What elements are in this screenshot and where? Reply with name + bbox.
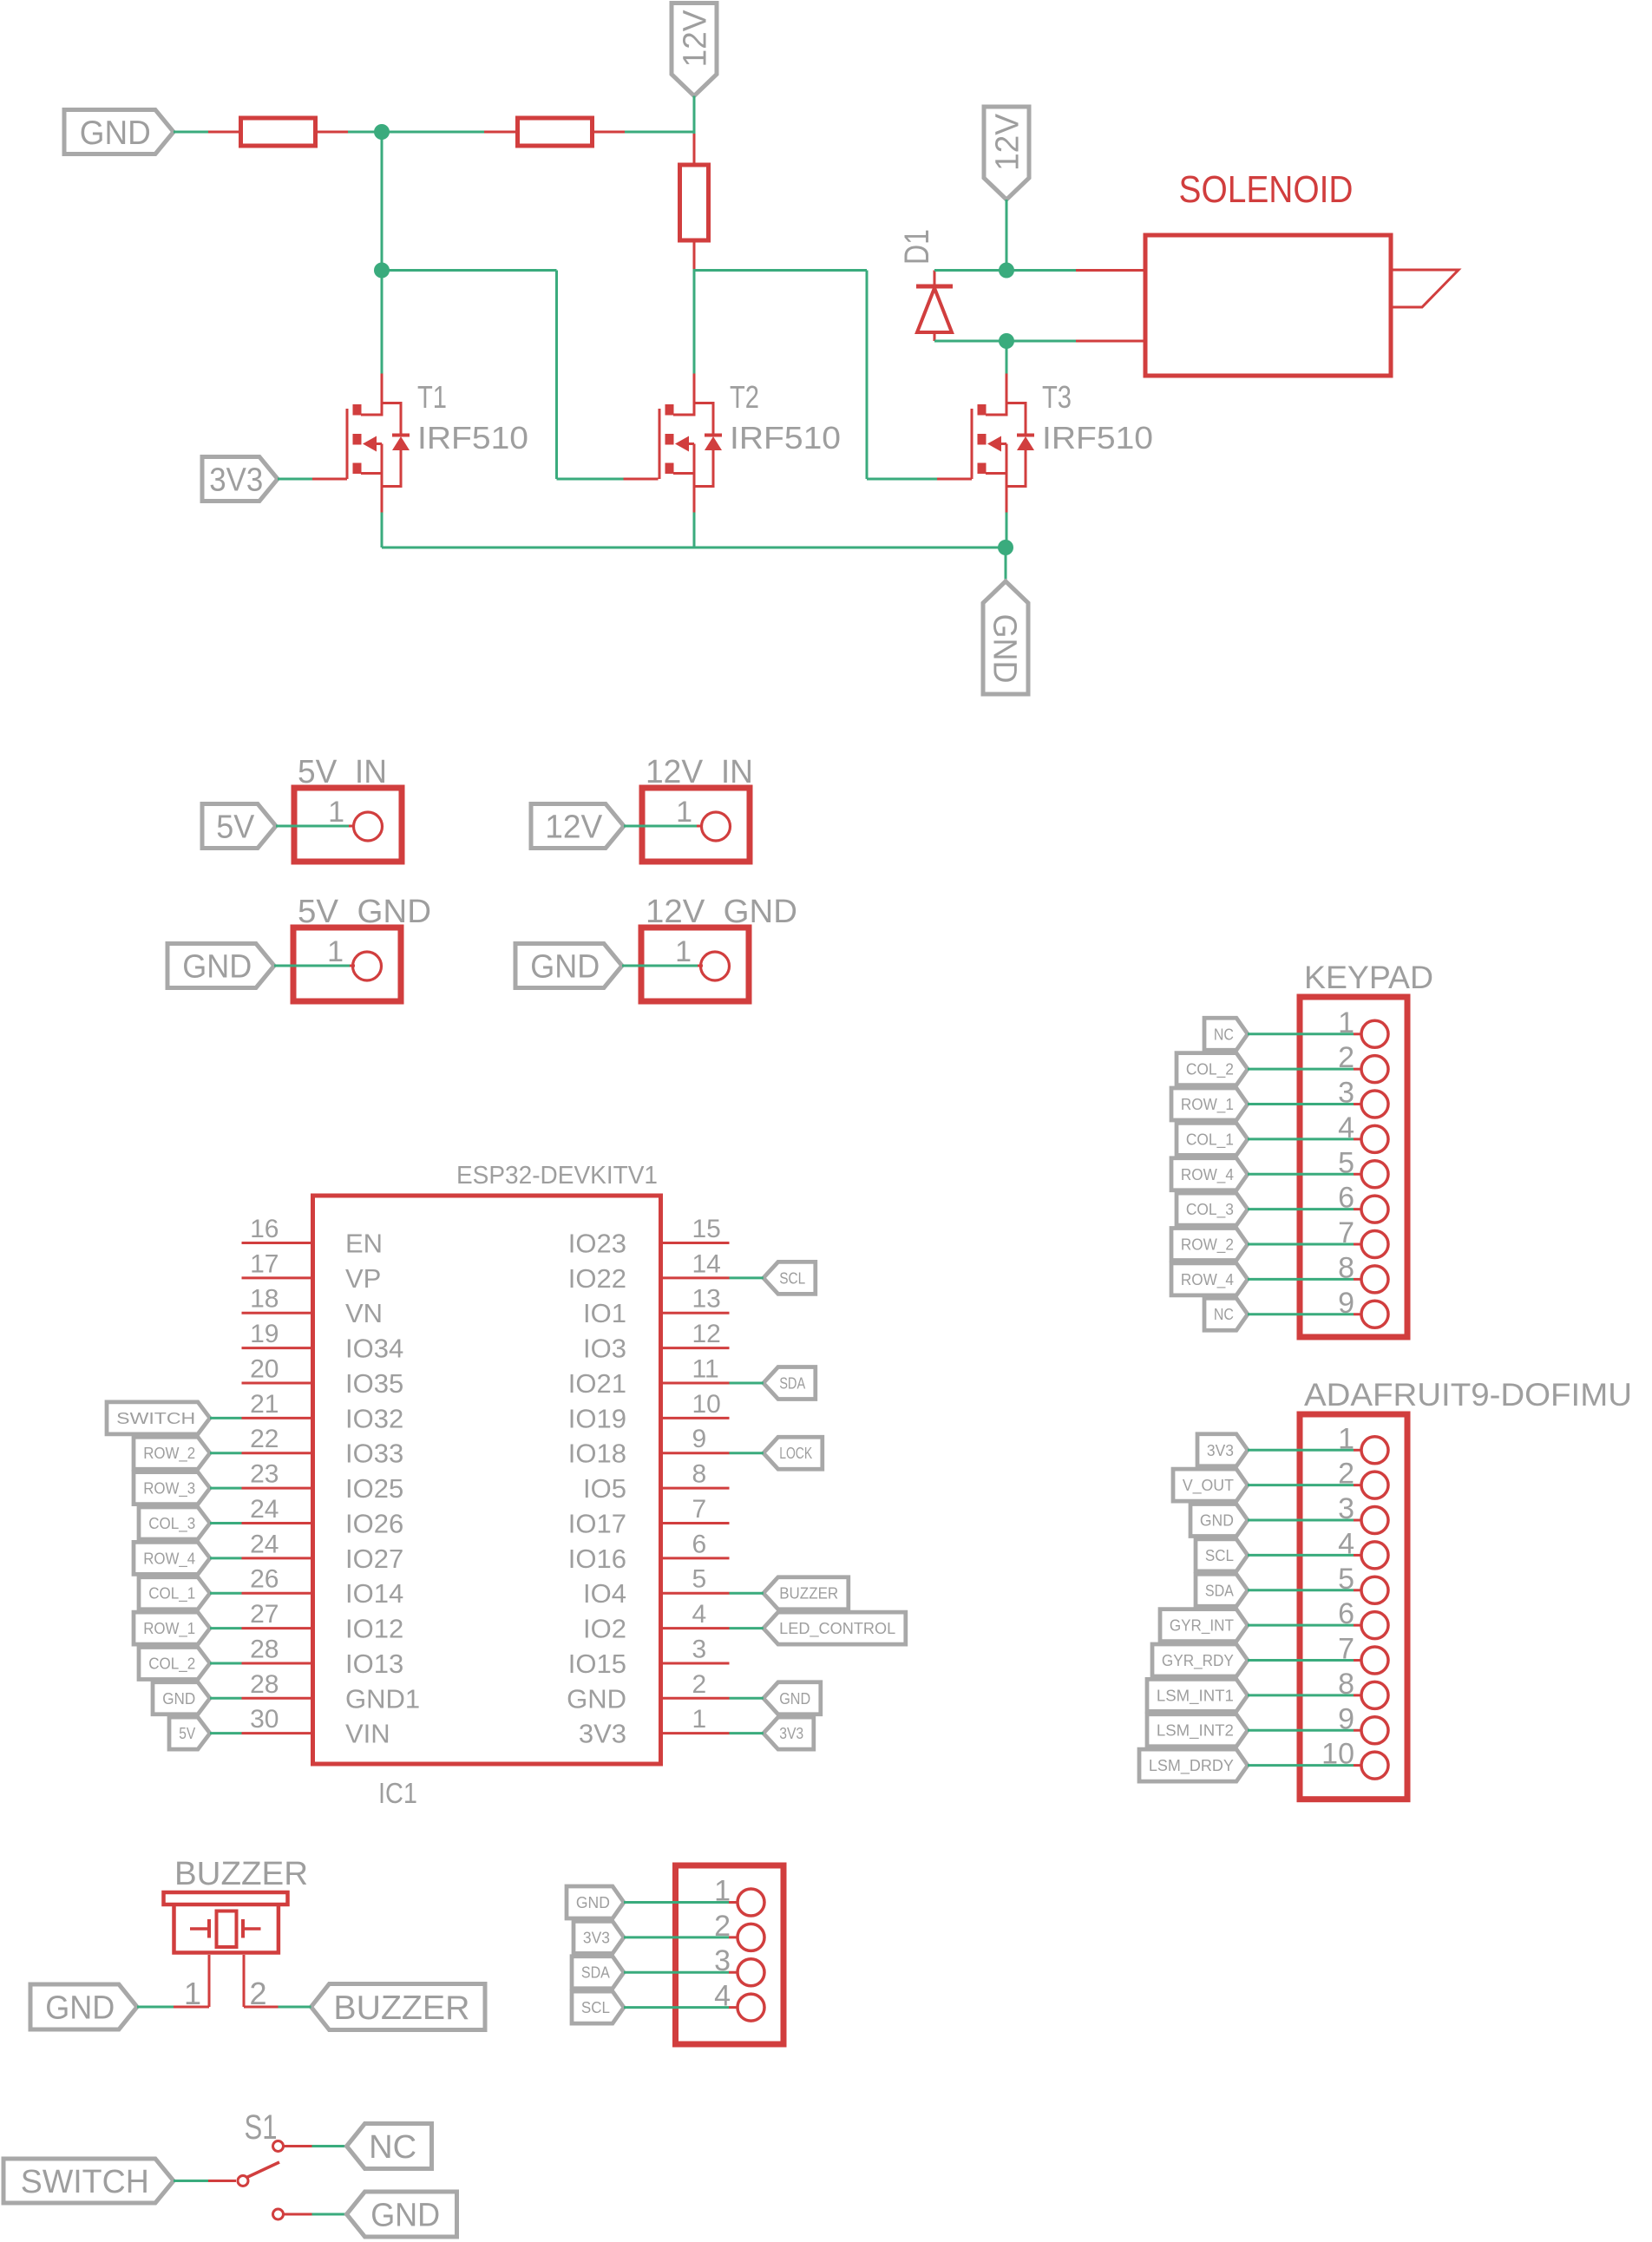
svg-text:12: 12 (692, 1320, 721, 1348)
svg-text:28: 28 (250, 1635, 279, 1663)
IC1 right pin 1 3V3 (579, 1705, 730, 1749)
wire ROW_3 to IC1 IO25 (210, 1487, 242, 1490)
svg-text:ROW_2: ROW_2 (1181, 1236, 1234, 1255)
svg-text:6: 6 (692, 1530, 707, 1558)
svg-text:D1: D1 (898, 229, 936, 265)
resistor R2 right pin (591, 131, 625, 134)
connector KEYPAD pin 7 (1338, 1216, 1388, 1258)
IC1 left pin 23 IO25 (242, 1460, 404, 1504)
IC1 right pin 2 GND (567, 1670, 729, 1714)
net flag SCL at JP1 pin 4 (572, 1991, 624, 2023)
IC1 right pin 6 IO16 (568, 1530, 730, 1574)
svg-text:5V: 5V (216, 810, 255, 846)
svg-text:IO27: IO27 (345, 1544, 403, 1574)
power flag 5V at 5V_IN (202, 804, 276, 849)
wire IC1 IO18 to LOCK (730, 1452, 764, 1454)
net flag LSM_DRDY at ADAFRUIT9-DOFIMU pin 10 (1139, 1749, 1248, 1781)
connector ADAFRUIT9-DOFIMU pin 4 (1338, 1527, 1388, 1569)
IC1 left pin 22 IO33 (242, 1425, 404, 1469)
wire COL_2 to KEYPAD pin 2 (1248, 1068, 1354, 1071)
connector KEYPAD pin 5 (1338, 1146, 1388, 1188)
net flag COL_2 at KEYPAD pin 2 (1177, 1053, 1248, 1085)
T3 drain pin (1006, 374, 1008, 405)
svg-text:ESP32-DEVKITV1: ESP32-DEVKITV1 (456, 1162, 658, 1190)
power flag 12V at 12V_IN (531, 804, 624, 849)
wire 12V flag down to R3 (693, 96, 696, 134)
net flag LED_CONTROL at IC1 pin 4 (764, 1612, 906, 1644)
svg-text:IO5: IO5 (583, 1473, 626, 1504)
svg-text:2: 2 (692, 1670, 707, 1699)
resistor R1 (241, 118, 316, 146)
svg-text:1: 1 (327, 935, 344, 968)
power flag GND at 12V_GND (515, 944, 622, 988)
net flag BUZZER at buzzer pin2 (311, 1984, 486, 2030)
connector KEYPAD pin 1 (1338, 1006, 1388, 1048)
buzzer pin 1 (174, 1955, 209, 2011)
wire S1 to GND flag (312, 2213, 347, 2216)
switch S1 GND pin wire (285, 2213, 312, 2216)
connector 12V_IN (642, 788, 750, 862)
svg-text:IO4: IO4 (583, 1578, 626, 1609)
svg-text:GND: GND (182, 949, 252, 986)
net flag ROW_4 at IC1 pin 24 (134, 1542, 210, 1574)
connector 5V_IN (294, 788, 402, 862)
svg-text:NC: NC (1214, 1306, 1234, 1323)
net flag COL_3 at IC1 pin 24 (139, 1507, 210, 1539)
IC1 right pin 5 IO4 (583, 1565, 729, 1609)
net flag NC (347, 2124, 432, 2169)
buzzer pin 2 (244, 1955, 279, 2011)
svg-text:GND: GND (779, 1690, 810, 1708)
connector JP1 pin 4 (714, 1980, 764, 2022)
power flag 12V above solenoid (984, 107, 1029, 200)
net flag COL_3 at KEYPAD pin 6 (1177, 1193, 1248, 1225)
svg-text:IC1: IC1 (378, 1777, 417, 1809)
wire GYR_RDY to ADAFRUIT9-DOFIMU pin 7 (1248, 1659, 1354, 1662)
svg-text:BUZZER: BUZZER (333, 1990, 469, 2027)
svg-text:13: 13 (692, 1285, 721, 1314)
IC1 left pin 18 VN (242, 1285, 383, 1329)
net flag V_OUT at ADAFRUIT9-DOFIMU pin 2 (1173, 1469, 1248, 1501)
solenoid pin2 (1076, 340, 1145, 343)
wire to T2 gate (557, 478, 624, 481)
resistor R1 left pin (208, 131, 241, 134)
svg-text:5: 5 (692, 1565, 707, 1594)
IC1 left pin 17 VP (242, 1249, 382, 1294)
svg-text:GND: GND (576, 1894, 610, 1911)
resistor R3 (680, 165, 709, 240)
svg-text:COL_2: COL_2 (1186, 1061, 1234, 1079)
svg-text:ROW_1: ROW_1 (1181, 1096, 1234, 1114)
svg-text:12V: 12V (545, 810, 603, 846)
net flag SWITCH at IC1 pin 21 (107, 1402, 210, 1434)
net flag COL_1 at KEYPAD pin 4 (1177, 1123, 1248, 1155)
IC1 right pin 14 IO22 (568, 1249, 730, 1294)
net flag NC at KEYPAD pin 9 (1204, 1298, 1248, 1330)
connector 12V_GND (641, 928, 749, 1001)
resistor R2 (518, 118, 593, 146)
svg-text:COL_2: COL_2 (148, 1655, 195, 1673)
wire IC1 IO4 to BUZZER (730, 1592, 764, 1595)
svg-text:COL_1: COL_1 (1186, 1131, 1234, 1149)
svg-text:23: 23 (250, 1460, 279, 1489)
net flag 3V3 at ADAFRUIT9-DOFIMU pin 1 (1197, 1434, 1248, 1466)
IC1 right pin 7 IO17 (568, 1495, 730, 1539)
svg-text:IO12: IO12 (345, 1614, 403, 1644)
IC1 right pin 8 IO5 (583, 1460, 729, 1504)
net flag SWITCH (3, 2159, 174, 2203)
svg-text:IO15: IO15 (568, 1649, 626, 1679)
connector ADAFRUIT9-DOFIMU pin 3 (1338, 1492, 1388, 1534)
T2 drain pin (693, 374, 696, 405)
net flag ROW_3 at IC1 pin 23 (134, 1472, 210, 1504)
svg-text:SCL: SCL (779, 1269, 805, 1287)
svg-text:1: 1 (692, 1705, 707, 1734)
connector KEYPAD pin 8 (1338, 1251, 1388, 1293)
connector ADAFRUIT9-DOFIMU pin 6 (1338, 1597, 1388, 1639)
wire ROW_1 to KEYPAD pin 3 (1248, 1103, 1354, 1105)
wire COL_3 to IC1 IO26 (210, 1522, 242, 1524)
wire LSM_DRDY to ADAFRUIT9-DOFIMU pin 10 (1248, 1764, 1354, 1767)
IC1 left pin 20 IO35 (242, 1354, 404, 1399)
wire COL_1 to KEYPAD pin 4 (1248, 1137, 1354, 1140)
wire GND to JP1 pin 1 (624, 1901, 729, 1904)
wire IC1 IO21 to SDA (730, 1381, 764, 1384)
svg-text:3V3: 3V3 (579, 1719, 626, 1749)
svg-text:11: 11 (692, 1354, 719, 1383)
connector JP1 body (676, 1865, 784, 2044)
net flag 5V at IC1 pin 30 (169, 1717, 210, 1749)
svg-text:12V: 12V (990, 113, 1026, 171)
svg-text:T3: T3 (1042, 379, 1072, 415)
svg-text:ADAFRUIT9-DOFIMU: ADAFRUIT9-DOFIMU (1304, 1377, 1632, 1413)
svg-text:3V3: 3V3 (209, 462, 263, 499)
svg-text:14: 14 (692, 1249, 721, 1278)
wire IC1 GND to GND (730, 1697, 764, 1700)
wire GND to ADAFRUIT9-DOFIMU pin 3 (1248, 1519, 1354, 1522)
svg-text:GND: GND (530, 949, 600, 986)
svg-text:1: 1 (676, 796, 692, 829)
IC1 right pin 4 IO2 (583, 1600, 729, 1644)
connector KEYPAD body (1300, 997, 1407, 1337)
svg-text:VIN: VIN (345, 1719, 390, 1749)
svg-text:SDA: SDA (581, 1964, 610, 1982)
svg-text:GYR_RDY: GYR_RDY (1162, 1652, 1234, 1670)
connector ADAFRUIT9-DOFIMU pin 1 (1338, 1422, 1388, 1464)
IC1 left pin 21 IO32 (242, 1390, 404, 1434)
wire GND to 12V_GND pin (622, 965, 698, 967)
wire GYR_INT to ADAFRUIT9-DOFIMU pin 6 (1248, 1624, 1354, 1627)
switch S1 (208, 2141, 284, 2220)
svg-text:IO17: IO17 (568, 1508, 626, 1538)
svg-text:19: 19 (250, 1320, 279, 1348)
wire V_OUT to ADAFRUIT9-DOFIMU pin 2 (1248, 1484, 1354, 1486)
svg-text:IRF510: IRF510 (730, 420, 841, 456)
T1 drain pin (381, 374, 383, 405)
svg-text:GND: GND (567, 1683, 626, 1714)
svg-text:LSM_INT2: LSM_INT2 (1157, 1722, 1234, 1740)
wire SCL to JP1 pin 4 (624, 2006, 729, 2009)
connector ADAFRUIT9-DOFIMU pin 5 (1338, 1563, 1388, 1604)
connector KEYPAD pin 6 (1338, 1182, 1388, 1223)
svg-text:IO16: IO16 (568, 1544, 626, 1574)
junction B (374, 263, 390, 279)
svg-text:20: 20 (250, 1354, 279, 1383)
net flag SDA at JP1 pin 3 (572, 1957, 624, 1989)
svg-text:IO21: IO21 (568, 1368, 626, 1399)
IC1 right pin 10 IO19 (568, 1390, 730, 1434)
solenoid plunger (1391, 270, 1459, 307)
svg-text:IO25: IO25 (345, 1473, 403, 1504)
switch S1 NC pin wire (285, 2145, 312, 2147)
svg-text:10: 10 (692, 1390, 721, 1419)
svg-text:3: 3 (692, 1635, 707, 1663)
solenoid body (1145, 235, 1391, 376)
svg-text:VN: VN (345, 1298, 383, 1328)
svg-text:T1: T1 (417, 379, 447, 415)
net flag BUZZER at IC1 pin 5 (764, 1577, 849, 1609)
wire R1 to junction A (348, 131, 484, 134)
wire junction B to T1 drain (381, 271, 383, 374)
svg-text:SCL: SCL (581, 1999, 610, 2016)
power flag GND top-left (64, 110, 174, 154)
svg-text:IO23: IO23 (568, 1229, 626, 1259)
svg-text:GND: GND (45, 1990, 115, 2027)
net flag SCL at IC1 pin 14 (764, 1262, 816, 1294)
wire ROW_4 to IC1 IO27 (210, 1557, 242, 1559)
svg-text:1: 1 (328, 796, 344, 829)
svg-text:SDA: SDA (1205, 1582, 1234, 1599)
svg-text:SWITCH: SWITCH (21, 2164, 149, 2200)
transistor T2 (659, 374, 722, 513)
wire node to solenoid pin1 (1006, 269, 1076, 272)
svg-text:NC: NC (369, 2129, 416, 2166)
svg-text:18: 18 (250, 1285, 279, 1314)
IC1 left pin 16 EN (242, 1215, 383, 1259)
connector ADAFRUIT9-DOFIMU body (1300, 1414, 1407, 1799)
net flag COL_1 at IC1 pin 26 (139, 1577, 210, 1609)
net flag ROW_1 at IC1 pin 27 (134, 1612, 210, 1644)
IC1 left pin 19 IO34 (242, 1320, 404, 1364)
wire SDA to ADAFRUIT9-DOFIMU pin 5 (1248, 1589, 1354, 1591)
svg-text:7: 7 (692, 1495, 707, 1524)
net flag ROW_4 at KEYPAD pin 5 (1171, 1158, 1248, 1190)
svg-text:IO1: IO1 (583, 1298, 626, 1328)
connector ADAFRUIT9-DOFIMU pin 8 (1338, 1668, 1388, 1709)
svg-text:5V: 5V (179, 1725, 195, 1742)
connector ADAFRUIT9-DOFIMU pin 10 (1321, 1738, 1388, 1779)
svg-text:LSM_DRDY: LSM_DRDY (1149, 1757, 1234, 1775)
power flag 12V top (672, 3, 717, 96)
svg-text:NC: NC (1214, 1026, 1234, 1043)
IC1 right pin 12 IO3 (583, 1320, 729, 1364)
connector ADAFRUIT9-DOFIMU pin 7 (1338, 1633, 1388, 1675)
net flag SCL at ADAFRUIT9-DOFIMU pin 4 (1196, 1539, 1248, 1571)
net flag 3V3 at JP1 pin 2 (574, 1921, 624, 1953)
svg-text:COL_3: COL_3 (1186, 1201, 1234, 1219)
net flag GYR_INT at ADAFRUIT9-DOFIMU pin 6 (1160, 1609, 1248, 1642)
svg-text:24: 24 (250, 1530, 279, 1558)
svg-text:ROW_4: ROW_4 (143, 1550, 195, 1568)
svg-text:24: 24 (250, 1495, 279, 1524)
power flag 3V3 (202, 457, 278, 501)
wire T2 drain to T3 gate horizontal (694, 269, 867, 272)
svg-text:15: 15 (692, 1215, 721, 1243)
svg-text:30: 30 (250, 1705, 279, 1734)
power flag GND below T3 (983, 581, 1028, 694)
IC1 left pin 28 IO13 (242, 1635, 404, 1679)
wire 5V to IC1 VIN (210, 1732, 242, 1734)
IC1 left pin 27 IO12 (242, 1600, 404, 1644)
wire ROW_4 to KEYPAD pin 8 (1248, 1278, 1354, 1281)
svg-text:V_OUT: V_OUT (1183, 1477, 1234, 1495)
svg-text:8: 8 (692, 1460, 707, 1489)
svg-text:GND: GND (162, 1690, 195, 1708)
wire ROW_4 to KEYPAD pin 5 (1248, 1173, 1354, 1176)
net flag SDA at ADAFRUIT9-DOFIMU pin 5 (1196, 1574, 1248, 1606)
IC1 right pin 9 IO18 (568, 1425, 730, 1469)
svg-text:GYR_INT: GYR_INT (1170, 1617, 1234, 1636)
wire SWITCH to IC1 IO32 (210, 1417, 242, 1419)
svg-text:28: 28 (250, 1670, 279, 1699)
wire LSM_INT1 to ADAFRUIT9-DOFIMU pin 8 (1248, 1694, 1354, 1696)
wire SCL to ADAFRUIT9-DOFIMU pin 4 (1248, 1554, 1354, 1557)
wire buzzer pin2 to BUZZER flag (279, 2006, 311, 2009)
net flag GYR_RDY at ADAFRUIT9-DOFIMU pin 7 (1152, 1644, 1248, 1676)
source rail wire (382, 547, 1006, 549)
resistor R3 top pin (693, 134, 696, 165)
wire 5V to 5V_IN pin (276, 825, 349, 828)
svg-text:17: 17 (250, 1249, 279, 1278)
svg-text:BUZZER: BUZZER (779, 1585, 838, 1603)
svg-text:VP: VP (345, 1263, 381, 1294)
svg-text:EN: EN (345, 1229, 383, 1259)
IC1 left pin 26 IO14 (242, 1565, 404, 1609)
svg-text:IO2: IO2 (583, 1614, 626, 1644)
connector 5V_GND (293, 928, 401, 1001)
wire ROW_2 to IC1 IO33 (210, 1452, 242, 1454)
wire IC1 3V3 to 3V3 (730, 1732, 764, 1734)
svg-text:S1: S1 (245, 2108, 278, 2147)
IC1 left pin 28 GND1 (242, 1670, 421, 1714)
IC1 right pin 13 IO1 (583, 1285, 729, 1329)
transistor T3 (972, 374, 1034, 513)
svg-text:4: 4 (692, 1600, 707, 1629)
transistor T1 (347, 374, 410, 513)
T1 gate pin (312, 478, 347, 481)
buzzer symbol (164, 1892, 288, 1953)
IC1 ESP32 body (313, 1196, 661, 1764)
svg-text:LSM_INT1: LSM_INT1 (1157, 1687, 1234, 1705)
svg-text:26: 26 (250, 1565, 279, 1594)
svg-text:12V: 12V (678, 10, 714, 68)
wire SWITCH to S1 common (174, 2180, 208, 2182)
wire COL_3 to KEYPAD pin 6 (1248, 1208, 1354, 1210)
svg-text:3V3: 3V3 (779, 1725, 803, 1742)
connector ADAFRUIT9-DOFIMU pin 9 (1338, 1702, 1388, 1744)
net flag ROW_1 at KEYPAD pin 3 (1171, 1088, 1248, 1120)
connector JP1 pin 3 (714, 1944, 764, 1986)
wire junction A down to junction B (381, 132, 383, 271)
wire GND to buzzer pin1 (137, 2006, 174, 2009)
net flag LSM_INT1 at ADAFRUIT9-DOFIMU pin 8 (1147, 1679, 1248, 1711)
wire T2 gate feed vertical (555, 271, 558, 480)
svg-text:IO13: IO13 (345, 1649, 403, 1679)
wire GND to IC1 GND1 (210, 1697, 242, 1700)
connector KEYPAD pin 3 (1338, 1077, 1388, 1118)
svg-text:IRF510: IRF510 (417, 420, 528, 456)
svg-text:IO3: IO3 (583, 1334, 626, 1364)
connector KEYPAD pin 9 (1338, 1287, 1388, 1328)
net flag COL_2 at IC1 pin 28 (139, 1647, 210, 1679)
wire 3V3 to T1 gate (278, 478, 312, 481)
wire COL_2 to IC1 IO13 (210, 1662, 242, 1664)
svg-text:IO14: IO14 (345, 1578, 403, 1609)
wire T3 source to rail (1006, 513, 1008, 548)
wire rail to GND flag (1005, 547, 1007, 581)
svg-text:LED_CONTROL: LED_CONTROL (779, 1620, 895, 1638)
net flag ROW_4 at KEYPAD pin 8 (1171, 1263, 1248, 1295)
net flag ROW_2 at KEYPAD pin 7 (1171, 1229, 1248, 1261)
wire 3V3 to JP1 pin 2 (624, 1936, 729, 1938)
wire 12V to 12V_IN pin (624, 825, 697, 828)
diode D1 (916, 286, 953, 341)
svg-text:IO19: IO19 (568, 1403, 626, 1433)
wire junction B to T2 gate horizontal (382, 269, 557, 272)
svg-text:SOLENOID: SOLENOID (1179, 168, 1354, 211)
wire T1 source to rail (381, 513, 383, 548)
wire NC to KEYPAD pin 1 (1248, 1032, 1354, 1035)
IC1 left pin 30 VIN (242, 1705, 390, 1749)
resistor R1 right pin (315, 131, 348, 134)
svg-text:21: 21 (250, 1390, 279, 1419)
wire LSM_INT2 to ADAFRUIT9-DOFIMU pin 9 (1248, 1729, 1354, 1732)
IC1 left pin 24 IO26 (242, 1495, 404, 1539)
net flag GND at ADAFRUIT9-DOFIMU pin 3 (1190, 1504, 1248, 1537)
svg-text:COL_3: COL_3 (148, 1515, 195, 1533)
wire COL_1 to IC1 IO14 (210, 1592, 242, 1595)
wire ROW_2 to KEYPAD pin 7 (1248, 1243, 1354, 1246)
net flag SDA at IC1 pin 11 (764, 1367, 816, 1399)
svg-text:KEYPAD: KEYPAD (1304, 960, 1433, 995)
svg-text:IRF510: IRF510 (1042, 420, 1153, 456)
svg-text:IO22: IO22 (568, 1263, 626, 1294)
net flag LSM_INT2 at ADAFRUIT9-DOFIMU pin 9 (1147, 1714, 1248, 1747)
net flag NC at KEYPAD pin 1 (1204, 1018, 1248, 1050)
wire node to solenoid pin2 (1006, 340, 1076, 343)
svg-text:GND: GND (370, 2198, 440, 2234)
wire T3 gate feed vertical (866, 271, 869, 480)
svg-text:SCL: SCL (1205, 1547, 1234, 1564)
power flag GND at buzzer (30, 1984, 137, 2029)
svg-text:3V3: 3V3 (1207, 1442, 1234, 1459)
svg-text:1: 1 (675, 935, 692, 968)
wire R2 to 12V column (625, 131, 694, 134)
wire SDA to JP1 pin 3 (624, 1971, 729, 1974)
diode D1 cathode pin (934, 271, 936, 285)
wire 12V to solenoid node (1006, 200, 1008, 271)
net flag GND at JP1 pin 1 (567, 1886, 624, 1918)
wire IC1 IO22 to SCL (730, 1276, 764, 1279)
junction A (374, 124, 390, 140)
net flag ROW_2 at IC1 pin 22 (134, 1437, 210, 1469)
connector KEYPAD pin 4 (1338, 1111, 1388, 1153)
junction solenoid pin2 (999, 333, 1014, 349)
svg-text:22: 22 (250, 1425, 279, 1453)
net flag 3V3 at IC1 pin 1 (764, 1717, 814, 1749)
wire R3 to T2 drain (693, 269, 696, 374)
resistor R2 left pin (484, 131, 519, 134)
